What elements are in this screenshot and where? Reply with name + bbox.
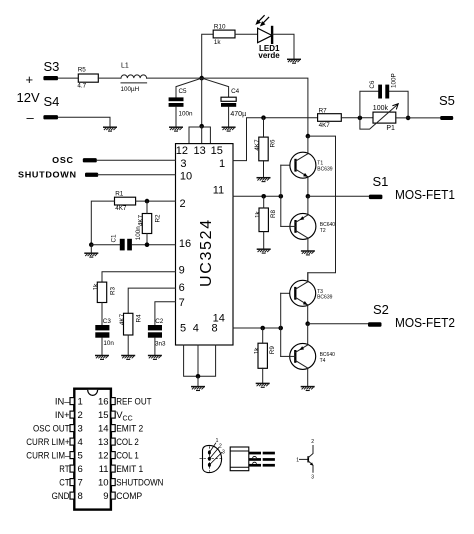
svg-text:7: 7: [78, 478, 83, 489]
svg-text:1k: 1k: [93, 283, 100, 291]
wire R8 top: [263, 196, 265, 208]
wire R7 to P1: [341, 117, 373, 119]
svg-text:2: 2: [311, 439, 314, 445]
svg-text:S1: S1: [373, 174, 389, 189]
junction R9 top: [260, 326, 265, 331]
svg-text:SHUTDOWN: SHUTDOWN: [18, 171, 77, 180]
svg-text:IN+: IN+: [55, 410, 70, 421]
resistor R10: [213, 24, 235, 47]
ground (IC common): [191, 387, 205, 391]
svg-text:C4: C4: [231, 88, 240, 95]
wire base rail T3/T4: [280, 293, 282, 356]
capacitor C5: [169, 88, 193, 117]
svg-text:EMIT 1: EMIT 1: [116, 464, 143, 475]
terminal S5: [439, 93, 455, 120]
svg-text:–: –: [27, 110, 35, 125]
DIP pin row 2: IN+ / VCC: [55, 410, 133, 422]
svg-text:1k: 1k: [253, 347, 260, 355]
wire pin 7 to C2: [155, 302, 176, 325]
ground (R8): [257, 249, 271, 253]
svg-text:CT: CT: [59, 478, 69, 489]
svg-text:9: 9: [179, 264, 185, 276]
svg-text:MOS-FET1: MOS-FET1: [395, 187, 455, 202]
DIP pin row 3: OSC OUT / EMIT 2: [33, 424, 143, 435]
svg-text:R1: R1: [115, 190, 124, 197]
junction pins-5-4-8: [196, 374, 201, 379]
TO-92 package bottom view: [200, 438, 226, 473]
svg-text:CURR LIM+: CURR LIM+: [26, 437, 70, 448]
svg-text:12: 12: [176, 145, 188, 157]
junction P1 right: [406, 116, 411, 121]
svg-text:COL 1: COL 1: [116, 451, 139, 462]
svg-text:C6: C6: [369, 80, 376, 89]
wire R6 top: [263, 118, 265, 137]
wire R2 bottom: [146, 234, 148, 245]
svg-text:R6: R6: [270, 139, 277, 148]
ground (C4): [222, 127, 236, 131]
terminal S4: [43, 94, 59, 119]
svg-text:COMP: COMP: [116, 491, 142, 502]
wire pins 5 4 8 to ground bus: [184, 345, 216, 376]
wire T1 emitter to output: [307, 177, 309, 197]
svg-text:16: 16: [179, 238, 191, 250]
wire T2 collector to ground: [307, 238, 309, 250]
wire P1 to S5: [396, 117, 440, 119]
svg-text:OSC: OSC: [52, 156, 73, 165]
wire R5 to L1: [98, 77, 121, 79]
svg-text:EMIT 2: EMIT 2: [116, 424, 143, 435]
svg-text:COL 2: COL 2: [116, 437, 139, 448]
wire S3 to R5: [58, 77, 78, 79]
svg-text:S4: S4: [44, 94, 60, 109]
wire OSC to pin 3: [97, 159, 176, 161]
junction R6 top: [261, 115, 266, 120]
terminal SHUTDOWN: [18, 171, 98, 180]
svg-text:R8: R8: [270, 209, 277, 218]
svg-text:BC639: BC639: [317, 294, 333, 300]
resistor R7: [318, 107, 342, 129]
wire pin 9 to R3: [102, 272, 176, 282]
svg-text:6: 6: [78, 464, 83, 475]
svg-text:IN–: IN–: [55, 397, 70, 408]
wire R1 to pin 2: [136, 200, 176, 202]
inductor L1: [121, 63, 147, 94]
svg-text:11: 11: [99, 464, 109, 475]
wire bus to pins 12 13 15: [189, 126, 210, 143]
wire T2 emitter: [307, 196, 309, 215]
resistor R4: [119, 313, 143, 335]
svg-text:R9: R9: [269, 346, 276, 355]
svg-text:7: 7: [179, 297, 185, 309]
wire T4 collector to ground: [307, 368, 309, 386]
svg-text:1: 1: [296, 457, 299, 463]
transistor pin symbol: [296, 439, 314, 481]
junction emitter output S2: [305, 321, 310, 326]
capacitor C2: [148, 318, 166, 347]
ground (LED1): [287, 59, 301, 63]
svg-text:R4: R4: [136, 314, 143, 323]
wire node A to C4: [202, 78, 229, 97]
svg-text:100n: 100n: [179, 110, 194, 117]
svg-text:T2: T2: [320, 228, 326, 234]
svg-text:S5: S5: [439, 93, 455, 108]
ground (C3): [95, 356, 109, 360]
svg-text:C5: C5: [179, 88, 188, 95]
terminal S3: [43, 59, 59, 80]
wire C1 right to pin 16: [132, 244, 176, 246]
ground (T4): [301, 387, 315, 391]
ground (C2): [148, 356, 162, 360]
wire junction to ground: [197, 376, 199, 386]
svg-text:3: 3: [180, 158, 186, 170]
svg-text:1: 1: [219, 158, 225, 170]
svg-text:BC639: BC639: [317, 166, 333, 172]
svg-text:C1: C1: [111, 234, 118, 243]
wire node A to C5: [176, 78, 202, 97]
wire node A down to pin-13 bus: [201, 78, 203, 126]
DIP pin row 7: CT / SHUTDOWN: [59, 478, 163, 489]
svg-text:3n3: 3n3: [155, 340, 166, 347]
resistor R5: [77, 67, 98, 90]
resistor R8: [254, 208, 277, 232]
resistor R3: [93, 282, 117, 302]
LED LED1 verde: [256, 15, 280, 60]
transistor T3 BC639: [290, 280, 333, 306]
node A junction: [199, 76, 204, 81]
svg-text:MOS-FET2: MOS-FET2: [395, 315, 455, 330]
wire pin 6 to R4: [128, 288, 175, 313]
svg-text:R10: R10: [214, 24, 226, 31]
wire output to S1: [308, 195, 369, 197]
wire C3 to ground: [101, 338, 103, 355]
svg-text:100µH: 100µH: [121, 86, 140, 93]
svg-text:4: 4: [193, 323, 199, 335]
svg-text:11: 11: [213, 185, 224, 197]
wire T4 base: [281, 355, 296, 357]
wire R8 to ground: [263, 232, 265, 249]
wire pin 1 up to compensation line: [233, 118, 318, 161]
transistor T2 BC640: [290, 213, 335, 239]
wire T1 collector: [307, 136, 309, 154]
svg-text:9: 9: [103, 491, 108, 502]
svg-text:4: 4: [78, 437, 83, 448]
svg-text:T4: T4: [320, 358, 326, 364]
svg-text:100P: 100P: [391, 73, 398, 88]
svg-text:15: 15: [211, 145, 223, 157]
svg-text:5: 5: [180, 323, 186, 335]
junction base rail lower: [278, 326, 283, 331]
svg-text:8: 8: [212, 323, 218, 335]
capacitor C1: [111, 226, 142, 251]
svg-text:4K7: 4K7: [115, 205, 127, 212]
junction R1/R2/pin2: [145, 199, 150, 204]
wire R3 to C3: [101, 303, 103, 326]
svg-text:6: 6: [179, 282, 185, 294]
capacitor C3: [95, 318, 114, 347]
ground (T2): [301, 251, 315, 255]
svg-text:S3: S3: [44, 59, 60, 74]
junction pin-13 bus: [199, 124, 204, 129]
svg-text:1k: 1k: [254, 211, 261, 219]
wire C4 to ground: [228, 107, 230, 127]
svg-text:S2: S2: [373, 302, 389, 317]
wire T3 collector: [307, 273, 309, 282]
junction base rail upper: [279, 194, 284, 199]
wire node A to +12V rail right: [202, 78, 308, 136]
wire output to S2: [308, 323, 368, 325]
wire T4 emitter: [307, 324, 309, 344]
terminal OSC: [52, 156, 97, 165]
svg-text:13: 13: [98, 437, 109, 448]
ground (C5): [169, 127, 183, 131]
wire base rail T1/T2: [280, 165, 282, 226]
capacitor C4 electrolytic: [221, 88, 246, 118]
DIP pin row 1: IN- / REF OUT: [55, 397, 152, 408]
wire to ground (C1): [90, 245, 92, 253]
DIP pin row 8: GND / COMP: [52, 491, 143, 502]
wire T1 base: [281, 164, 296, 166]
svg-text:R5: R5: [78, 67, 87, 74]
svg-text:16: 16: [98, 397, 109, 408]
wire T3 emitter to output: [307, 305, 309, 324]
svg-text:8: 8: [78, 491, 83, 502]
capacitor C6: [360, 73, 408, 118]
svg-text:RT: RT: [59, 464, 69, 475]
svg-text:1k: 1k: [214, 39, 222, 46]
wire L1 to node A: [147, 77, 202, 79]
svg-text:10n: 10n: [103, 340, 114, 347]
svg-text:OSC OUT: OSC OUT: [33, 424, 70, 435]
svg-text:3: 3: [311, 475, 314, 481]
junction P1 left: [358, 116, 363, 121]
DIP pin row 6: RT / EMIT 1: [59, 464, 143, 475]
svg-text:10: 10: [180, 171, 192, 183]
wire R10 to LED1: [235, 33, 258, 35]
wire C1 left: [91, 244, 120, 246]
wire node A up to R10: [202, 34, 214, 78]
svg-text:14: 14: [98, 424, 109, 435]
wire pin 11 drive line: [233, 195, 281, 197]
wire C5 to ground: [175, 107, 177, 127]
op-amp U1 UC3524 body: [176, 144, 234, 345]
wire SHUTDOWN to pin 10: [98, 174, 176, 176]
junction emitter output S1: [306, 194, 311, 199]
svg-text:C3: C3: [103, 318, 112, 325]
svg-text:4K7: 4K7: [319, 122, 331, 129]
svg-text:4.7: 4.7: [77, 83, 86, 90]
svg-text:100n: 100n: [135, 226, 142, 241]
svg-text:REF OUT: REF OUT: [116, 397, 152, 408]
junction +12V rail / T1 collector: [306, 134, 311, 139]
wire R9 top: [262, 328, 264, 343]
DIP pin row 4: CURR LIM+ / COL 2: [26, 437, 139, 448]
svg-text:13: 13: [193, 145, 205, 157]
wire C2 to ground: [154, 338, 156, 355]
svg-text:R2: R2: [154, 214, 161, 223]
ground (C1): [84, 253, 98, 257]
svg-text:14: 14: [213, 312, 225, 324]
TO-92 package side view: [230, 447, 275, 471]
svg-text:R7: R7: [319, 107, 328, 114]
svg-text:2: 2: [179, 198, 185, 210]
svg-text:12V: 12V: [17, 90, 40, 105]
resistor R2: [138, 214, 162, 234]
transistor T1 BC639: [290, 152, 333, 178]
svg-text:15: 15: [98, 410, 109, 421]
svg-text:12: 12: [98, 451, 109, 462]
transistor T4 BC640: [290, 343, 335, 369]
DIP pin row 5: CURR LIM- / COL 1: [26, 451, 139, 462]
junction R8 top: [261, 194, 266, 199]
svg-text:10: 10: [98, 478, 109, 489]
svg-text:R3: R3: [109, 286, 116, 295]
svg-text:3: 3: [222, 449, 225, 455]
terminal S1: [369, 174, 455, 202]
wire T3 base: [281, 292, 296, 294]
wire R2 top: [146, 201, 148, 213]
ground (R9): [256, 383, 270, 387]
svg-text:1: 1: [78, 397, 83, 408]
svg-text:4K7: 4K7: [138, 214, 145, 226]
IC DIP-16 pinout body: [74, 389, 111, 510]
svg-text:P1: P1: [386, 125, 395, 132]
svg-text:UC3524: UC3524: [198, 218, 215, 287]
ground (R6): [257, 178, 271, 182]
svg-text:verde: verde: [258, 51, 280, 60]
resistor R1: [115, 190, 136, 212]
wire LED1 cathode to ground: [272, 34, 294, 58]
junction C1 left / ground: [89, 242, 94, 247]
svg-text:100k: 100k: [373, 105, 389, 112]
svg-text:SHUTDOWN: SHUTDOWN: [116, 478, 163, 489]
wire T2 base: [281, 225, 296, 227]
terminal S2: [368, 302, 455, 330]
ground (S4): [103, 127, 117, 131]
svg-text:3: 3: [78, 424, 83, 435]
potentiometer P1: [360, 104, 398, 133]
svg-text:5: 5: [78, 451, 83, 462]
svg-text:CURR LIM–: CURR LIM–: [26, 451, 70, 462]
resistor R9: [253, 343, 275, 368]
resistor R6: [254, 137, 277, 161]
svg-text:GND: GND: [52, 491, 70, 502]
wire R1 left leg down: [91, 201, 114, 245]
svg-text:4K7: 4K7: [254, 139, 261, 151]
svg-text:C2: C2: [155, 318, 164, 325]
wire rail branch to lower pair: [308, 136, 336, 281]
wire R4 to ground: [127, 335, 129, 355]
junction C1/R2/pin16: [145, 242, 150, 247]
label +12V supply: [17, 72, 40, 125]
svg-text:L1: L1: [121, 63, 129, 70]
svg-text:+: +: [26, 72, 34, 87]
svg-text:2: 2: [78, 410, 83, 421]
wire R9 to ground: [262, 368, 264, 382]
wire pin 14 drive line: [233, 327, 281, 329]
wire S4 to ground: [58, 117, 110, 126]
ground (R4): [121, 356, 135, 360]
svg-text:470µ: 470µ: [230, 111, 246, 118]
wire R6 to ground: [263, 161, 265, 177]
svg-text:4K7: 4K7: [119, 313, 126, 325]
